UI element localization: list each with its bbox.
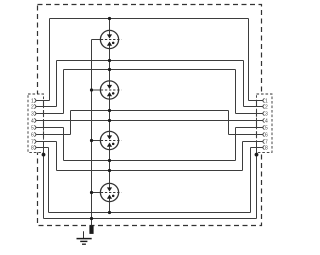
svg-text:5: 5 bbox=[265, 125, 268, 131]
svg-text:8: 8 bbox=[265, 145, 268, 151]
svg-text:6: 6 bbox=[265, 132, 268, 138]
svg-text:4: 4 bbox=[31, 118, 34, 124]
svg-text:8: 8 bbox=[31, 145, 34, 151]
svg-text:6: 6 bbox=[31, 132, 34, 138]
svg-text:2: 2 bbox=[31, 104, 34, 110]
svg-text:3: 3 bbox=[31, 111, 34, 117]
svg-text:2: 2 bbox=[265, 104, 268, 110]
svg-text:5: 5 bbox=[31, 125, 34, 131]
svg-text:3: 3 bbox=[265, 111, 268, 117]
svg-text:4: 4 bbox=[265, 118, 268, 124]
